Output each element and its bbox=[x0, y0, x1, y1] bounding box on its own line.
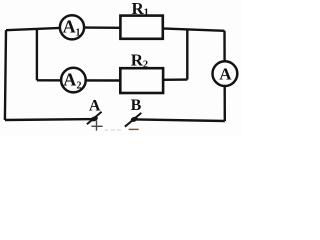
wire: inner right vertical bbox=[186, 29, 188, 79]
ammeter A (main) bbox=[213, 61, 238, 86]
wire: top branch horizontal bbox=[6, 27, 225, 30]
terminal B: probe diagonal bbox=[125, 113, 141, 127]
svg-text:B: B bbox=[131, 97, 142, 114]
wire: branch 2 right horizontal bbox=[163, 78, 187, 81]
svg-text:A: A bbox=[219, 64, 232, 83]
svg-text:2: 2 bbox=[143, 60, 148, 71]
svg-text:1: 1 bbox=[144, 8, 149, 19]
wire: bottom right segment bbox=[136, 119, 225, 121]
terminal B: minus sign bbox=[129, 128, 139, 130]
wire: right outer vertical bbox=[223, 31, 226, 121]
svg-text:R: R bbox=[131, 51, 144, 70]
wire: inner left vertical bbox=[36, 29, 38, 80]
terminal A: probe diagonal bbox=[87, 112, 102, 125]
terminal A: probe blob bbox=[90, 115, 98, 122]
wire: left outer vertical bbox=[5, 30, 6, 120]
svg-text:A: A bbox=[63, 69, 76, 89]
wire: branch 2 left horizontal bbox=[37, 79, 120, 82]
svg-text:A: A bbox=[89, 97, 101, 114]
svg-text:A: A bbox=[63, 17, 76, 37]
svg-text:1: 1 bbox=[76, 28, 81, 39]
resistor R2 bbox=[120, 68, 163, 93]
svg-text:2: 2 bbox=[77, 81, 82, 92]
wire: bottom left segment bbox=[5, 118, 95, 121]
terminal A: plus sign bbox=[91, 121, 102, 131]
terminal B: probe blob bbox=[130, 116, 138, 123]
ammeter A1 bbox=[60, 15, 84, 39]
ammeter A2 bbox=[61, 68, 86, 93]
resistor R1 bbox=[120, 16, 162, 39]
wire: faint scan dashes between terminals bbox=[105, 129, 122, 131]
svg-text:R: R bbox=[132, 0, 145, 18]
